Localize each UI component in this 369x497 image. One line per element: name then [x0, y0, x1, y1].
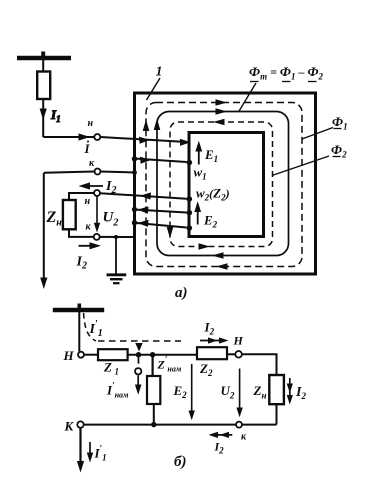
wire bus to fuse: [42, 60, 44, 72]
transformer core outer boundary: [135, 93, 316, 274]
U2 voltage arrow (b): [239, 369, 241, 413]
EMF E1 arrow and label: [198, 147, 200, 165]
node H (b, right): [235, 351, 242, 358]
wire к2 to core with ground tap: [100, 236, 134, 238]
svg-text:I: I: [84, 141, 91, 156]
ground: [115, 237, 117, 274]
svg-text:б): б): [174, 454, 186, 470]
I2 double down arrow right of load: [289, 378, 291, 399]
impedance Z2 box: [197, 347, 227, 359]
supply bus bar (diagram b): [53, 308, 104, 312]
node к (b, right): [236, 422, 242, 428]
wire H to Z'1: [84, 354, 98, 356]
svg-text:1: 1: [156, 65, 163, 80]
I2 annotation lower (secondary return): [79, 245, 97, 247]
load bottom wire: [69, 229, 94, 237]
load Zн wiring (left loop): [69, 193, 94, 200]
I'1 annotation arrow: [89, 442, 91, 457]
dashed current path I'1: [84, 313, 97, 341]
primary winding turn P1: [100, 137, 186, 142]
flux arrows bottom: [216, 263, 228, 270]
svg-text:К: К: [64, 419, 75, 434]
node H (b, left): [78, 352, 84, 358]
node к (primary end terminal): [95, 169, 101, 175]
main wire to Z2: [128, 354, 197, 356]
U2 voltage arrow: [96, 197, 98, 230]
E2 EMF arrow (b): [191, 364, 193, 415]
junction with terminal and I'nam arrow: [136, 352, 141, 357]
node н2 (secondary start): [94, 190, 100, 196]
I2 annotation bottom (double left arrow): [212, 434, 232, 436]
wire H2 to load: [242, 354, 277, 375]
flux arrows top: [216, 99, 228, 106]
impedance Z'1 box: [98, 349, 128, 360]
wire fuse down with current arrow I1: [42, 99, 44, 137]
supply bus bar (diagram a): [17, 56, 71, 60]
EMF E2 arrow and label: [197, 208, 199, 225]
flux Ф2 inner dashed loop: [170, 122, 273, 247]
svg-text:Н: Н: [63, 348, 75, 363]
svg-text:Н: Н: [233, 334, 244, 348]
wire to node H (primary start): [43, 136, 94, 138]
fuse F1: [37, 72, 50, 100]
wire bus down to node H: [78, 312, 80, 352]
flux Ф1 outer dashed loop: [146, 103, 302, 267]
svg-text:н: н: [88, 118, 94, 129]
bottom wire (b): [84, 424, 277, 426]
node к2 (secondary end): [94, 234, 100, 240]
I2 annotation (secondary current out): [84, 185, 103, 187]
flux arrows left limb: [143, 120, 150, 132]
load Zн box: [63, 200, 76, 229]
wire К down with arrow: [79, 428, 81, 466]
wire Z2 to node H2: [227, 353, 235, 355]
secondary winding turn S1: [100, 193, 187, 199]
load Zн box (b): [269, 375, 284, 404]
node н (primary start terminal): [94, 134, 100, 140]
magnetizing branch junction: [150, 352, 155, 357]
magnetizing impedance Z'nam box: [147, 376, 160, 404]
wire node к to core: [101, 172, 135, 173]
secondary winding turn S3: [134, 223, 187, 228]
secondary winding turn S2: [134, 210, 187, 213]
svg-text:а): а): [175, 285, 188, 301]
primary winding turn P2: [134, 159, 187, 163]
svg-text:н: н: [85, 196, 91, 207]
core window: [189, 133, 264, 237]
node К (b, left): [77, 421, 83, 427]
flux Фт resultant solid loop: [157, 112, 289, 256]
primary return wire to line, down arrow: [44, 172, 95, 173]
